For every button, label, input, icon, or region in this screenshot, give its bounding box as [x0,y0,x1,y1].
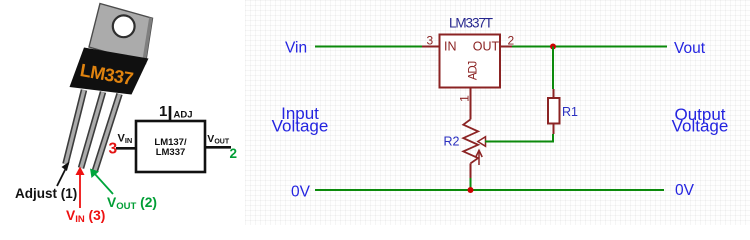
label R1 [562,105,578,119]
svg-text:2: 2 [508,34,515,48]
net label 0V (left) [291,184,311,201]
TO-220 leg 2 (Vin) [81,92,103,168]
svg-text:3: 3 [427,34,434,48]
wire Vin to IC [315,46,422,48]
TO-220 package body [70,48,149,95]
svg-text:ADJ: ADJ [174,110,193,121]
IC pin name IN [444,39,457,53]
label LM337 on package [79,60,135,89]
svg-text:IN: IN [444,39,457,53]
svg-text:0V: 0V [675,182,695,199]
pin number 2 [508,34,515,48]
resistor R1 [548,89,560,134]
svg-text:VIN: VIN [118,132,133,145]
svg-text:R1: R1 [562,105,578,119]
junction dot at 0V rail [468,187,474,193]
potentiometer R2 [463,119,485,178]
part name LM337T [449,15,493,30]
net label Vin [285,40,307,57]
junction dot at R1 top [550,44,556,50]
wire IC to Vout [512,46,667,48]
IC LM337T box [440,35,501,88]
wire junction down to R1 [552,47,554,90]
wire wiper to R1 (green horizontal from pot) [485,141,553,143]
arrow to Adjust pin [57,162,70,187]
block pin VOUT (right) [205,133,237,161]
svg-text:Vin: Vin [285,40,307,57]
svg-text:LM337: LM337 [156,147,186,158]
block pin ADJ (top) [159,103,193,121]
pin number 3 [427,34,434,48]
wire R1 bottom to wiper [484,134,553,142]
TO-220 leg 1 (Adjust) [66,90,85,164]
text Output Voltage [672,105,729,136]
pin stub 1 (IC bottom / ADJ lead) [470,88,472,119]
svg-text:R2: R2 [444,135,460,149]
svg-text:Voltage: Voltage [672,117,729,136]
IC block LM137/LM337 [136,121,205,172]
0V rail wire [315,189,664,191]
net label Vout [674,40,706,57]
TO-220 package tab [89,4,153,64]
svg-text:Adjust (1): Adjust (1) [15,186,77,201]
svg-text:VIN (3): VIN (3) [66,208,105,225]
block pin VIN (left) [109,132,137,157]
wire R2 bottom to 0V rail [470,178,472,190]
TO-220 tab mounting hole [113,15,135,37]
arrow to Vin pin (red) [76,167,85,209]
pin stub 2 (IC right) [500,46,512,48]
svg-text:1: 1 [159,103,167,120]
label VOUT (2) [107,195,157,212]
TO-220 leg 3 (Vout) [95,94,120,171]
svg-text:VOUT: VOUT [207,133,230,145]
label VIN (3) [66,208,105,225]
svg-text:3: 3 [109,141,118,158]
pin stub 3 (IC left) [422,46,440,48]
svg-text:Vout: Vout [674,40,706,57]
svg-text:ADJ: ADJ [468,61,480,80]
svg-text:1: 1 [458,95,472,102]
text Input Voltage [272,104,329,135]
label Adjust (1) [15,186,77,201]
IC pin name OUT [473,39,500,53]
net label 0V (right) [675,182,695,199]
svg-text:Voltage: Voltage [272,116,329,135]
pin number 1 (rotated) [458,95,472,102]
svg-text:LM337T: LM337T [449,15,493,30]
arrow to Vout pin (green) [90,169,113,195]
svg-text:OUT: OUT [473,39,500,53]
svg-text:2: 2 [230,146,238,161]
svg-text:VOUT (2): VOUT (2) [107,195,157,212]
svg-text:0V: 0V [291,184,311,201]
IC pin name ADJ (rotated) [468,61,480,80]
label R2 [444,135,460,149]
